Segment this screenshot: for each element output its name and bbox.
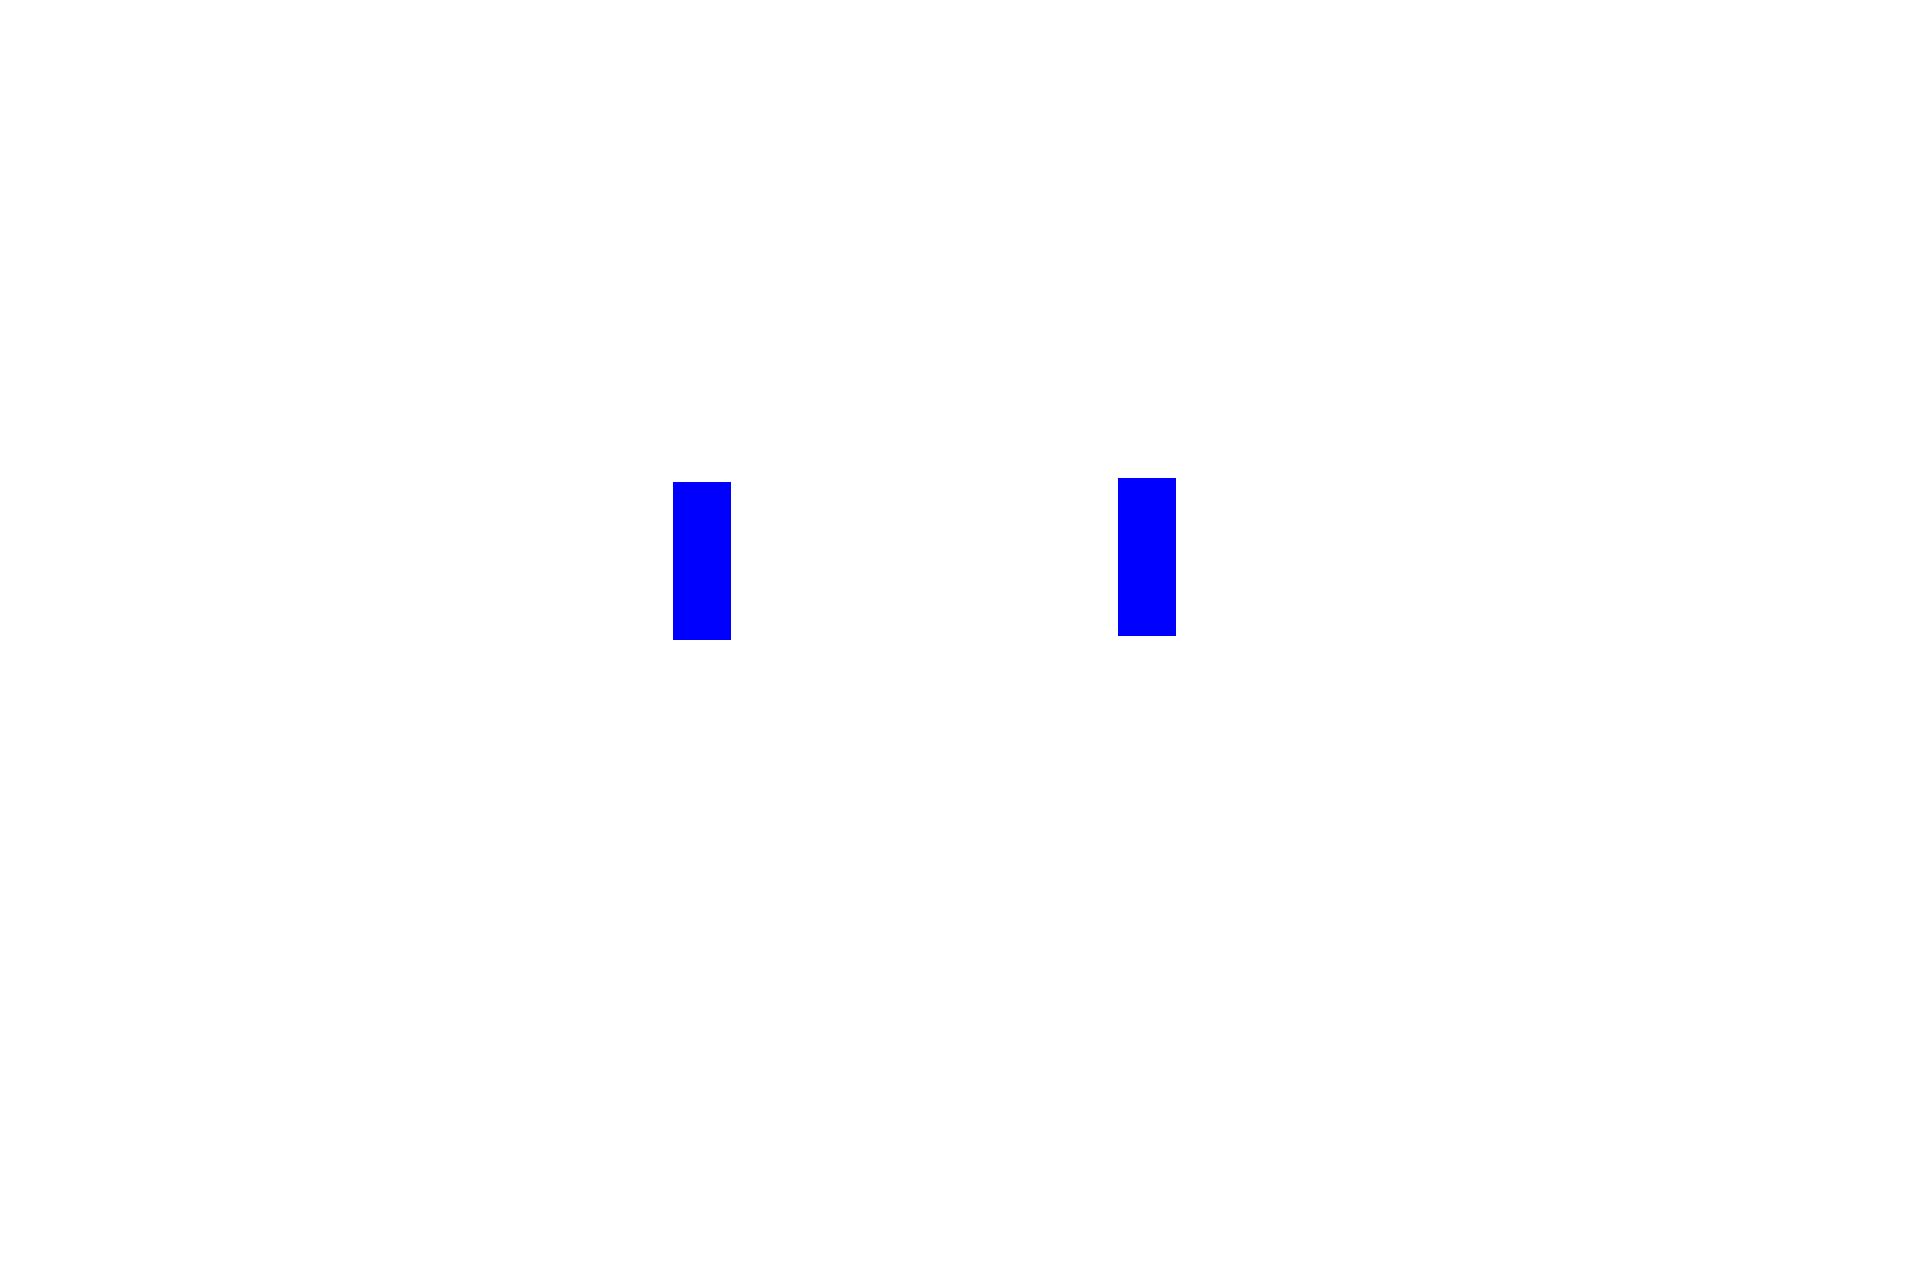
blue rectangle 1 [673,482,731,640]
blue rectangle 2 [1118,478,1176,636]
